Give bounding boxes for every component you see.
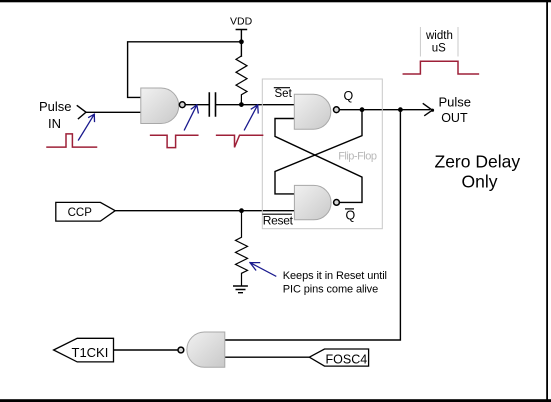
svg-text:Q: Q xyxy=(346,208,356,222)
svg-text:uS: uS xyxy=(432,42,446,54)
svg-text:Q: Q xyxy=(344,89,354,103)
svg-text:PIC pins come alive: PIC pins come alive xyxy=(283,283,378,295)
svg-text:Flip-Flop: Flip-Flop xyxy=(338,150,377,162)
svg-text:OUT: OUT xyxy=(441,111,468,125)
svg-text:IN: IN xyxy=(48,116,61,131)
svg-text:Pulse: Pulse xyxy=(439,94,472,109)
svg-text:FOSC4: FOSC4 xyxy=(326,352,368,366)
svg-text:T1CKI: T1CKI xyxy=(72,345,109,360)
svg-text:Set: Set xyxy=(275,88,293,100)
svg-text:width: width xyxy=(425,30,453,42)
svg-text:Only: Only xyxy=(462,172,498,192)
svg-text:Keeps it in Reset until: Keeps it in Reset until xyxy=(283,270,387,282)
svg-text:Pulse: Pulse xyxy=(39,99,72,114)
svg-text:Reset: Reset xyxy=(263,213,294,227)
svg-text:VDD: VDD xyxy=(230,15,253,27)
svg-text:CCP: CCP xyxy=(68,207,93,219)
svg-text:Zero Delay: Zero Delay xyxy=(435,152,521,172)
